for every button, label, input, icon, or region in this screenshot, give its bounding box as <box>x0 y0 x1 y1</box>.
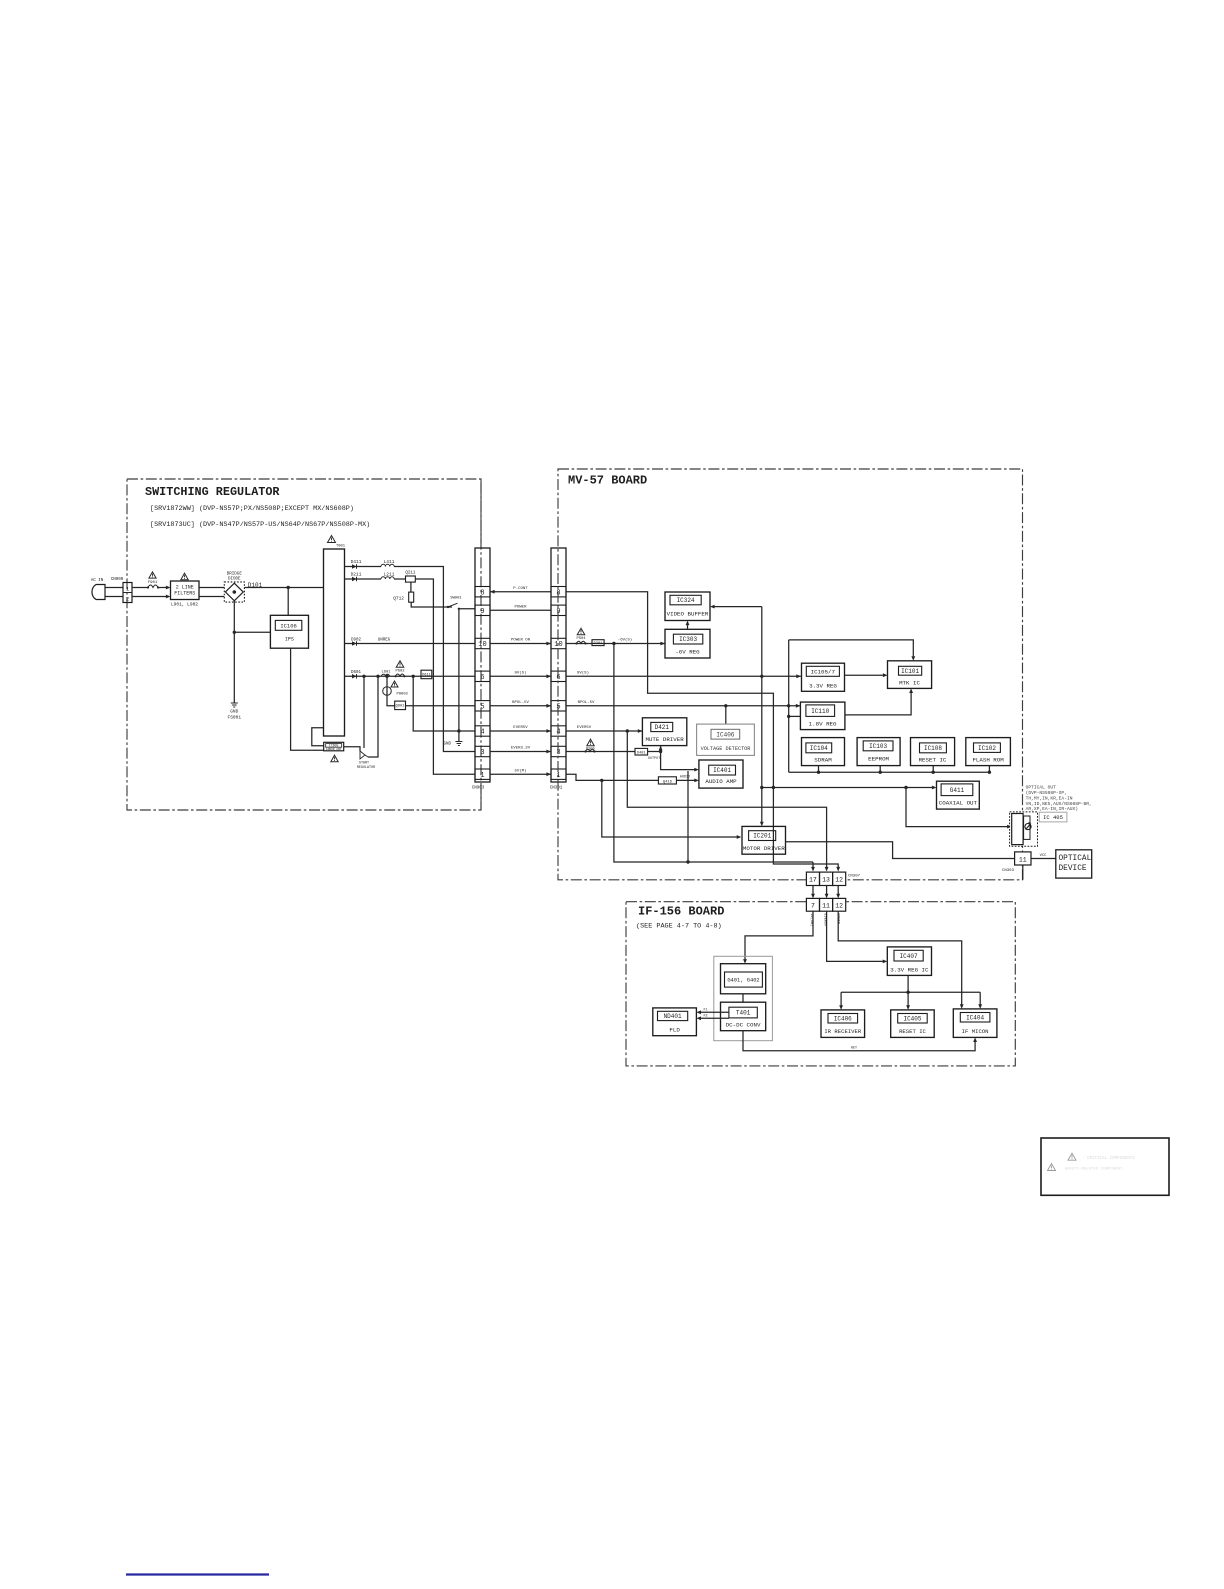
svg-text:: SAFETY-RELATED COMPONENT: : SAFETY-RELATED COMPONENT <box>1060 1168 1123 1172</box>
svg-text:D902: D902 <box>351 639 362 643</box>
svg-text:IC407: IC407 <box>900 953 918 960</box>
svg-text:GND: GND <box>230 709 238 715</box>
svg-text:-6V REG: -6V REG <box>675 649 700 656</box>
svg-text:EVER5V: EVER5V <box>577 726 592 730</box>
svg-text:BRIDGE: BRIDGE <box>227 573 243 577</box>
svg-text:[SRV1873UC] (DVP-NS47P/NS57P-U: [SRV1873UC] (DVP-NS47P/NS57P-US/NS64P/NS… <box>150 521 370 529</box>
svg-text:(DVP-NS508P-SP,: (DVP-NS508P-SP, <box>1026 790 1067 796</box>
svg-text:11: 11 <box>822 903 830 910</box>
svg-text:D401: D401 <box>637 751 646 755</box>
svg-text:OPTICAL OUT: OPTICAL OUT <box>1026 785 1057 791</box>
svg-text:F1: F1 <box>704 1009 708 1013</box>
svg-text:DIODE: DIODE <box>228 578 241 582</box>
svg-text:1: 1 <box>480 772 484 780</box>
svg-text:10: 10 <box>478 641 486 649</box>
svg-text:ND401: ND401 <box>664 1013 682 1020</box>
svg-text:RESET IC: RESET IC <box>899 1028 926 1035</box>
svg-text:SDRAM: SDRAM <box>814 757 832 764</box>
svg-text:G411: G411 <box>950 787 965 794</box>
svg-text:D421: D421 <box>655 724 670 731</box>
svg-text:CN301: CN301 <box>550 787 563 791</box>
svg-text:(SEE PAGE 4-7 TO 4-8): (SEE PAGE 4-7 TO 4-8) <box>636 923 722 931</box>
svg-text:VN,ID,NE5,AUS/NS608P-BR,: VN,ID,NE5,AUS/NS608P-BR, <box>1026 801 1092 807</box>
svg-text:12: 12 <box>835 877 843 884</box>
svg-text:FLASH ROM: FLASH ROM <box>972 757 1004 764</box>
svg-text:IC324: IC324 <box>677 597 695 604</box>
svg-text:DEVICE: DEVICE <box>1059 865 1087 873</box>
svg-text:IC605: IC605 <box>329 744 339 748</box>
svg-text:BPOL-5V: BPOL-5V <box>512 701 529 705</box>
svg-text:VCC: VCC <box>1040 854 1048 858</box>
svg-text:L411: L411 <box>384 559 395 565</box>
svg-text:2: 2 <box>126 596 129 603</box>
svg-text:KEY: KEY <box>851 1047 857 1051</box>
svg-text:FS001: FS001 <box>228 715 242 721</box>
svg-text:D211: D211 <box>351 572 362 578</box>
svg-text:POWER: POWER <box>514 606 527 610</box>
svg-text:IC303: IC303 <box>679 636 697 643</box>
svg-text:4: 4 <box>480 729 484 737</box>
svg-text:: CRITICAL COMPONENTS: : CRITICAL COMPONENTS <box>1082 1157 1135 1161</box>
svg-text:CN303: CN303 <box>1002 869 1015 873</box>
svg-text:G401, G402: G401, G402 <box>727 977 759 983</box>
svg-text:MTK IC: MTK IC <box>899 679 920 686</box>
svg-text:IC103: IC103 <box>869 743 887 750</box>
svg-text:FILTERS: FILTERS <box>174 591 195 597</box>
svg-text:Q211: Q211 <box>405 572 416 576</box>
svg-text:[SRV1872WW] (DVP-NS57P;PX/NS50: [SRV1872WW] (DVP-NS57P;PX/NS508P;EXCEPT … <box>150 505 354 513</box>
svg-text:IF-156 BOARD: IF-156 BOARD <box>638 905 724 919</box>
svg-text:IPS: IPS <box>285 637 294 643</box>
svg-text:AR,XP,EA-IN,IR-AUX): AR,XP,EA-IN,IR-AUX) <box>1026 806 1078 812</box>
svg-text:9V(S): 9V(S) <box>514 671 526 676</box>
svg-text:Q416: Q416 <box>663 780 673 784</box>
svg-text:VIDEO BUFFER: VIDEO BUFFER <box>667 611 709 618</box>
svg-text:Q712: Q712 <box>393 596 404 602</box>
svg-text:PS04: PS04 <box>576 637 586 641</box>
svg-text:11: 11 <box>1019 856 1027 863</box>
svg-text:T901: T901 <box>336 545 346 549</box>
svg-text:PS02: PS02 <box>395 670 405 674</box>
svg-text:8: 8 <box>480 589 484 597</box>
svg-text:EVER5V: EVER5V <box>513 726 528 730</box>
svg-text:MUTE DRIVER: MUTE DRIVER <box>645 736 684 743</box>
svg-text:T401: T401 <box>736 1010 751 1017</box>
svg-text:SW901: SW901 <box>450 597 462 601</box>
svg-text:17: 17 <box>809 877 817 884</box>
svg-text:6: 6 <box>480 674 484 682</box>
svg-text:3.3V REG IC: 3.3V REG IC <box>890 966 929 973</box>
svg-text:OUTPUT: OUTPUT <box>648 757 660 761</box>
svg-text:D411: D411 <box>351 559 362 565</box>
svg-text:EVER5V: EVER5V <box>823 914 827 928</box>
svg-text:MOTOR DRIVER: MOTOR DRIVER <box>743 845 785 852</box>
svg-text:3.3V REG: 3.3V REG <box>809 682 837 689</box>
svg-text:D301: D301 <box>594 642 603 646</box>
svg-text:UNREG: UNREG <box>378 639 391 643</box>
svg-text:AUDIO AMP: AUDIO AMP <box>705 778 737 785</box>
svg-text:5: 5 <box>480 703 484 711</box>
svg-text:REGULATOR: REGULATOR <box>357 766 375 770</box>
svg-text:SWITCHING REGULATOR: SWITCHING REGULATOR <box>145 485 280 499</box>
svg-text:D611: D611 <box>422 674 431 678</box>
svg-text:5V(M): 5V(M) <box>514 768 526 773</box>
svg-text:13: 13 <box>822 877 830 884</box>
svg-text:3: 3 <box>480 749 484 757</box>
svg-text:RESET IC: RESET IC <box>919 757 947 764</box>
svg-text:FLD: FLD <box>669 1027 680 1034</box>
svg-text:POWER: POWER <box>836 914 840 925</box>
svg-text:ERROR AMP: ERROR AMP <box>326 748 341 751</box>
svg-text:IC108: IC108 <box>924 745 942 752</box>
svg-text:Q601: Q601 <box>396 705 405 709</box>
svg-text:EEPROM: EEPROM <box>868 755 889 762</box>
svg-text:GND: GND <box>443 743 451 747</box>
svg-text:L211: L211 <box>384 572 395 578</box>
svg-text:IC404: IC404 <box>966 1014 984 1021</box>
svg-text:CN903: CN903 <box>472 787 485 791</box>
svg-text:PH002: PH002 <box>397 693 409 697</box>
svg-text:7: 7 <box>811 903 815 910</box>
svg-text:IC105/7: IC105/7 <box>811 668 836 675</box>
svg-text:P.CONT: P.CONT <box>513 587 528 591</box>
svg-text:IF MICON: IF MICON <box>962 1028 989 1035</box>
svg-text:IC406: IC406 <box>834 1015 852 1022</box>
svg-text:L901, L902: L901, L902 <box>171 602 198 608</box>
svg-text:L601: L601 <box>381 671 391 675</box>
svg-text:D601: D601 <box>351 671 362 675</box>
svg-text:IC106: IC106 <box>280 622 297 629</box>
svg-text:POWER ON: POWER ON <box>511 639 531 643</box>
svg-text:IC 405: IC 405 <box>1043 814 1063 821</box>
svg-text:DC-DC CONV: DC-DC CONV <box>726 1022 761 1029</box>
svg-text:COAXIAL OUT: COAXIAL OUT <box>939 800 978 807</box>
svg-text:MV-57 BOARD: MV-57 BOARD <box>568 474 647 488</box>
svg-text:IC401: IC401 <box>713 767 731 774</box>
svg-text:IC104: IC104 <box>810 745 828 752</box>
svg-text:CN307: CN307 <box>848 875 861 879</box>
svg-text:IC405: IC405 <box>903 1015 921 1022</box>
svg-text:9: 9 <box>480 608 484 616</box>
svg-text:OPTICAL: OPTICAL <box>1059 855 1092 863</box>
svg-text:F901: F901 <box>148 581 158 585</box>
svg-text:IC406: IC406 <box>716 732 734 739</box>
svg-text:1.8V REG: 1.8V REG <box>809 721 837 728</box>
svg-text:AC IN: AC IN <box>91 579 104 583</box>
svg-text:IC110: IC110 <box>811 708 829 715</box>
svg-text:EVER3.3V: EVER3.3V <box>511 747 531 751</box>
svg-text:9V(S): 9V(S) <box>577 670 589 675</box>
svg-text:CN900: CN900 <box>111 578 124 582</box>
svg-text:IC102: IC102 <box>978 745 996 752</box>
svg-text:F2: F2 <box>704 1015 708 1019</box>
svg-text:IR RECEIVER: IR RECEIVER <box>824 1028 862 1035</box>
svg-text:IC201: IC201 <box>753 833 771 840</box>
svg-text:12: 12 <box>835 903 843 910</box>
svg-text:VOLTAGE DETECTOR: VOLTAGE DETECTOR <box>701 746 751 752</box>
svg-text:IC101: IC101 <box>901 668 919 675</box>
svg-text:BPOL-5V: BPOL-5V <box>578 701 595 705</box>
svg-text:TH,MY,IN,KR,EA-IN: TH,MY,IN,KR,EA-IN <box>1026 795 1073 801</box>
svg-text:-6V(S): -6V(S) <box>618 638 632 643</box>
